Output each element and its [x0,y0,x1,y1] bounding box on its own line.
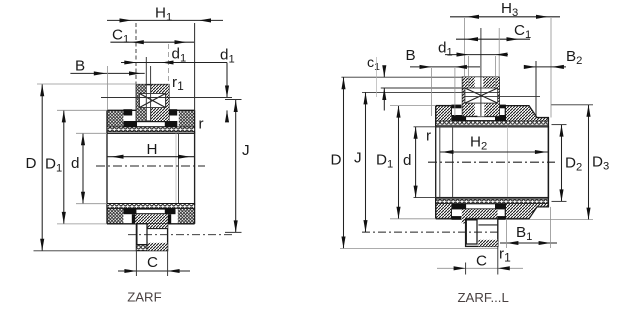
svg-text:B2: B2 [566,48,582,67]
svg-text:d1: d1 [438,40,453,59]
svg-text:B1: B1 [516,224,532,243]
dimension C1 right [456,38,530,40]
left bottom seal black square right [168,214,171,224]
svg-text:B: B [75,58,85,75]
svg-text:D1: D1 [376,152,393,171]
svg-text:H1: H1 [155,5,172,24]
right sleeve hatch inside bar [462,209,498,223]
right top bar right hatch block with step [505,106,548,122]
svg-text:d: d [403,152,411,169]
left column slit edge lines [145,57,147,121]
svg-text:r: r [426,128,431,145]
left sleeve white groove slot [137,224,147,245]
svg-text:D: D [331,152,342,169]
right bore internal verticals [439,127,441,198]
left bottom seal black square left [132,214,135,224]
left sleeve upper-right hatch [147,224,168,229]
left bottom bar left hatch block [107,205,123,224]
left top seal black band left [123,109,132,115]
left bottom cage loop band [107,204,195,209]
svg-text:d: d [71,155,79,172]
right column center line [480,28,482,116]
dimension d right [415,127,417,198]
svg-text:C1: C1 [112,27,129,46]
right spigot right face [547,118,549,207]
left top bar left hatch block [107,110,123,127]
svg-text:H: H [147,141,158,158]
dimension B2 right [524,66,566,68]
svg-text:J: J [242,142,250,159]
left top middle black band [123,121,177,127]
d1 level line left [101,97,232,99]
right bottom cage loop band [436,199,549,203]
right column lower slit white [477,103,484,116]
dimension C left [118,270,190,272]
dimension C1 left [110,41,194,43]
left sleeve inner step line [147,228,168,230]
svg-text:r: r [199,116,204,133]
svg-text:D: D [26,155,37,172]
svg-text:c1: c1 [367,55,380,73]
right top seal black band right [498,105,506,109]
dimension B right [410,66,480,68]
dimension D right [343,77,345,248]
right bottom bar left hatch block [436,203,452,219]
dimension C right [437,267,523,269]
svg-text:D3: D3 [592,153,609,172]
right column hatch band right [483,77,499,116]
left bottom bar outline [106,204,108,224]
svg-text:D1: D1 [45,156,62,175]
right column axial washer [463,77,500,116]
left bore internal vertical (washer back face) [178,133,180,203]
left bottom sleeve hatch inside bar [135,214,168,224]
left column hatch band right [151,85,169,121]
dimension D2 right [561,125,563,202]
level line right of column [465,96,540,98]
dimension D1 right [398,106,400,219]
right top roller white slot [466,116,495,120]
left column hatch band left [136,85,146,121]
left bottom roller white slot [136,210,164,214]
svg-text:C: C [147,254,158,271]
right bottom roller white slot [466,204,495,208]
left bore bottom edge [107,203,195,205]
left top roller white slot [137,122,165,126]
left sleeve center dash-dot [128,234,232,236]
left bottom middle black band [123,208,175,214]
svg-text:d1: d1 [172,46,187,65]
right sleeve inner step line [478,224,497,226]
svg-text:d1: d1 [220,47,235,66]
svg-text:C1: C1 [514,22,531,41]
left top bar right hatch block [179,110,195,127]
right centering sleeve [466,219,498,247]
dimension d1 right [445,54,508,56]
svg-text:H3: H3 [501,0,518,19]
dimension d1 horizontal left [121,62,227,64]
left roller X square [140,94,166,108]
right top cage loop band [436,121,549,125]
right bore rectangle [436,127,549,198]
right top middle black band [451,115,506,121]
left axis center line [96,165,205,167]
dimension J left [235,100,237,232]
svg-text:J: J [354,149,362,166]
left top bar top edge [107,109,195,111]
right bottom seal black band right [498,216,506,220]
svg-text:ZARF: ZARF [127,289,161,304]
left bottom bar right hatch block [178,205,195,224]
level line col top ext right [341,76,462,78]
svg-text:r1: r1 [172,74,184,93]
right roller X square [465,88,498,103]
right axis center line [428,161,555,163]
svg-text:r1: r1 [499,246,511,265]
svg-text:D2: D2 [565,154,582,173]
left column axial washer [136,85,169,122]
dimension c1 right [383,67,385,77]
left top seal black band right [169,109,177,115]
dimension H1 left [107,19,223,21]
left centering sleeve [136,224,167,251]
right bottom bar right hatch block with step [505,203,548,219]
dimension D3 right [588,105,590,220]
left sleeve bottom hatch band [147,243,168,251]
dimension J right [365,92,367,232]
dimension D left [41,84,43,251]
left top cage loop band [107,127,195,132]
right column cap gap white [475,77,483,88]
dimension D1 left [63,110,65,223]
right bore bottom edge [436,197,549,199]
right bottom seal black band left [451,216,461,220]
right sleeve center dash-dot [362,231,498,233]
right column hatch band left [463,77,475,116]
right top bar left hatch block [436,106,452,122]
right sleeve white groove slot [466,220,477,244]
dimension B1 right [500,242,557,244]
left bore rectangle [107,133,195,203]
svg-text:ZARF...L: ZARF...L [458,290,509,305]
dimension d1 vertical leg left [226,63,228,98]
dimension H left [107,156,194,158]
dimension H2 right [440,151,548,153]
svg-text:B: B [406,47,416,64]
svg-text:C: C [476,252,487,269]
level line J ref right [362,91,498,93]
dimension B left [70,72,144,74]
level line X top right [381,87,465,89]
dimension H3 right [450,16,560,18]
right bottom middle black band [451,204,506,210]
right top seal black band left [451,105,461,109]
dimension d left [82,133,84,203]
